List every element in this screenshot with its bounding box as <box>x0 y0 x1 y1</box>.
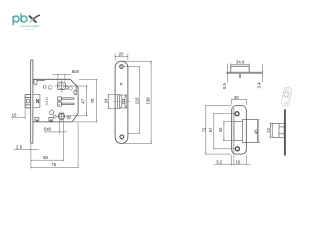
dim 9.5 <box>226 64 228 83</box>
cylinder hole 6x6 <box>57 111 67 121</box>
follower circle 2 <box>69 87 73 91</box>
lever slot 2 <box>57 102 74 106</box>
strike latch opening <box>234 122 243 141</box>
fixing tab 2 <box>49 118 53 122</box>
strike plate crease <box>233 108 235 152</box>
dim 34.6 <box>231 63 249 66</box>
follower circle 1 <box>65 86 68 89</box>
svg-text:32: 32 <box>218 127 223 132</box>
svg-text:3.4: 3.4 <box>256 82 261 89</box>
dim 45 <box>258 120 260 143</box>
bottom small hole right <box>67 116 70 119</box>
dim 22 <box>270 123 273 137</box>
stamped micro text <box>46 98 48 105</box>
strike side plate edge <box>284 109 285 155</box>
svg-text:24: 24 <box>103 98 108 103</box>
dim 72 <box>205 106 231 155</box>
svg-text:50: 50 <box>43 155 48 160</box>
strike section plate underside <box>227 73 263 75</box>
strike side dust box <box>272 123 284 137</box>
dim 20 strike <box>232 99 247 105</box>
strike section channel <box>231 66 249 72</box>
latch tail bracket <box>33 95 40 108</box>
case boss top-left <box>34 79 37 84</box>
svg-text:138: 138 <box>145 97 150 105</box>
dim 3.4 <box>261 64 263 82</box>
dim 57 <box>213 114 234 149</box>
svg-text:115: 115 <box>134 97 139 104</box>
dim 70 <box>73 79 97 122</box>
faceplate side bar <box>31 60 33 143</box>
cam pentagon <box>49 110 54 115</box>
svg-text:10: 10 <box>12 112 17 117</box>
svg-text:www.pbx.es: www.pbx.es <box>26 29 35 31</box>
bottom small hole left <box>53 115 56 118</box>
svg-text:8x8: 8x8 <box>72 69 80 74</box>
svg-text:3.2: 3.2 <box>216 160 223 165</box>
fixing tab 1 <box>35 118 39 122</box>
strike screw hole top <box>235 112 239 116</box>
strike plate outline <box>232 106 247 155</box>
dim 75 depth <box>31 123 78 169</box>
strike dust box <box>242 120 257 143</box>
dim 47 <box>67 86 88 116</box>
svg-text:16: 16 <box>236 160 241 165</box>
strike section plate surface <box>227 71 263 73</box>
dim 50 backset <box>31 144 64 169</box>
dim 115 <box>124 67 140 134</box>
svg-text:20: 20 <box>119 51 124 56</box>
svg-text:75: 75 <box>51 162 56 167</box>
svg-text:45: 45 <box>253 129 258 134</box>
svg-text:34.6: 34.6 <box>236 60 245 65</box>
dim 24 <box>108 94 117 108</box>
svg-text:72: 72 <box>201 127 206 132</box>
svg-text:2.5: 2.5 <box>16 145 23 150</box>
corner spring hook <box>74 85 76 95</box>
faceplate plate <box>115 61 128 143</box>
svg-text:22: 22 <box>266 127 271 132</box>
dim 8x8 <box>52 74 70 81</box>
dim 10 latch <box>11 109 25 119</box>
strike section lip <box>240 74 241 78</box>
latch bolt front <box>118 95 127 109</box>
dim 138 <box>124 61 152 143</box>
3d strike icon <box>281 87 292 107</box>
lock case outline <box>33 79 78 122</box>
dim 6x6 <box>44 112 67 161</box>
svg-text:9.5: 9.5 <box>222 83 227 90</box>
bottom screw hole <box>120 135 124 139</box>
svg-text:57: 57 <box>208 127 213 132</box>
top screw hole <box>120 65 124 69</box>
latch bolt side <box>25 95 31 108</box>
svg-text:6x6: 6x6 <box>44 127 52 132</box>
dim 2.5 faceplate thickness <box>14 148 39 150</box>
case hole small 2 <box>48 85 52 89</box>
dim 32 <box>223 122 233 141</box>
svg-text:47: 47 <box>81 98 86 103</box>
dim 3.2 and 16 <box>214 153 250 166</box>
dim 20 faceplate width <box>115 53 128 60</box>
latch centerline <box>113 100 131 102</box>
case hole small 1 <box>43 86 46 89</box>
strike screw hole bottom <box>235 147 239 151</box>
case top edge recess <box>37 80 45 82</box>
logo pbx wordmark <box>13 13 40 25</box>
small pin hole <box>120 83 122 85</box>
svg-text:20: 20 <box>234 95 239 100</box>
lever slot 1 <box>57 97 74 101</box>
svg-text:N: N <box>36 99 40 105</box>
svg-text:70: 70 <box>90 98 95 103</box>
spindle hole 8x8 <box>55 80 68 93</box>
